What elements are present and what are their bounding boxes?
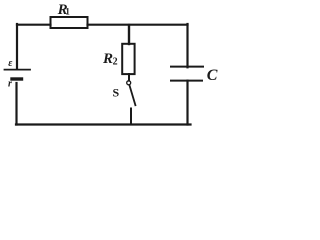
svg-text:C: C [207, 67, 218, 84]
svg-text:S: S [113, 86, 120, 100]
svg-text:1: 1 [65, 7, 70, 17]
svg-text:2: 2 [113, 57, 118, 68]
svg-text:R: R [102, 51, 113, 67]
svg-text:r: r [8, 79, 12, 90]
